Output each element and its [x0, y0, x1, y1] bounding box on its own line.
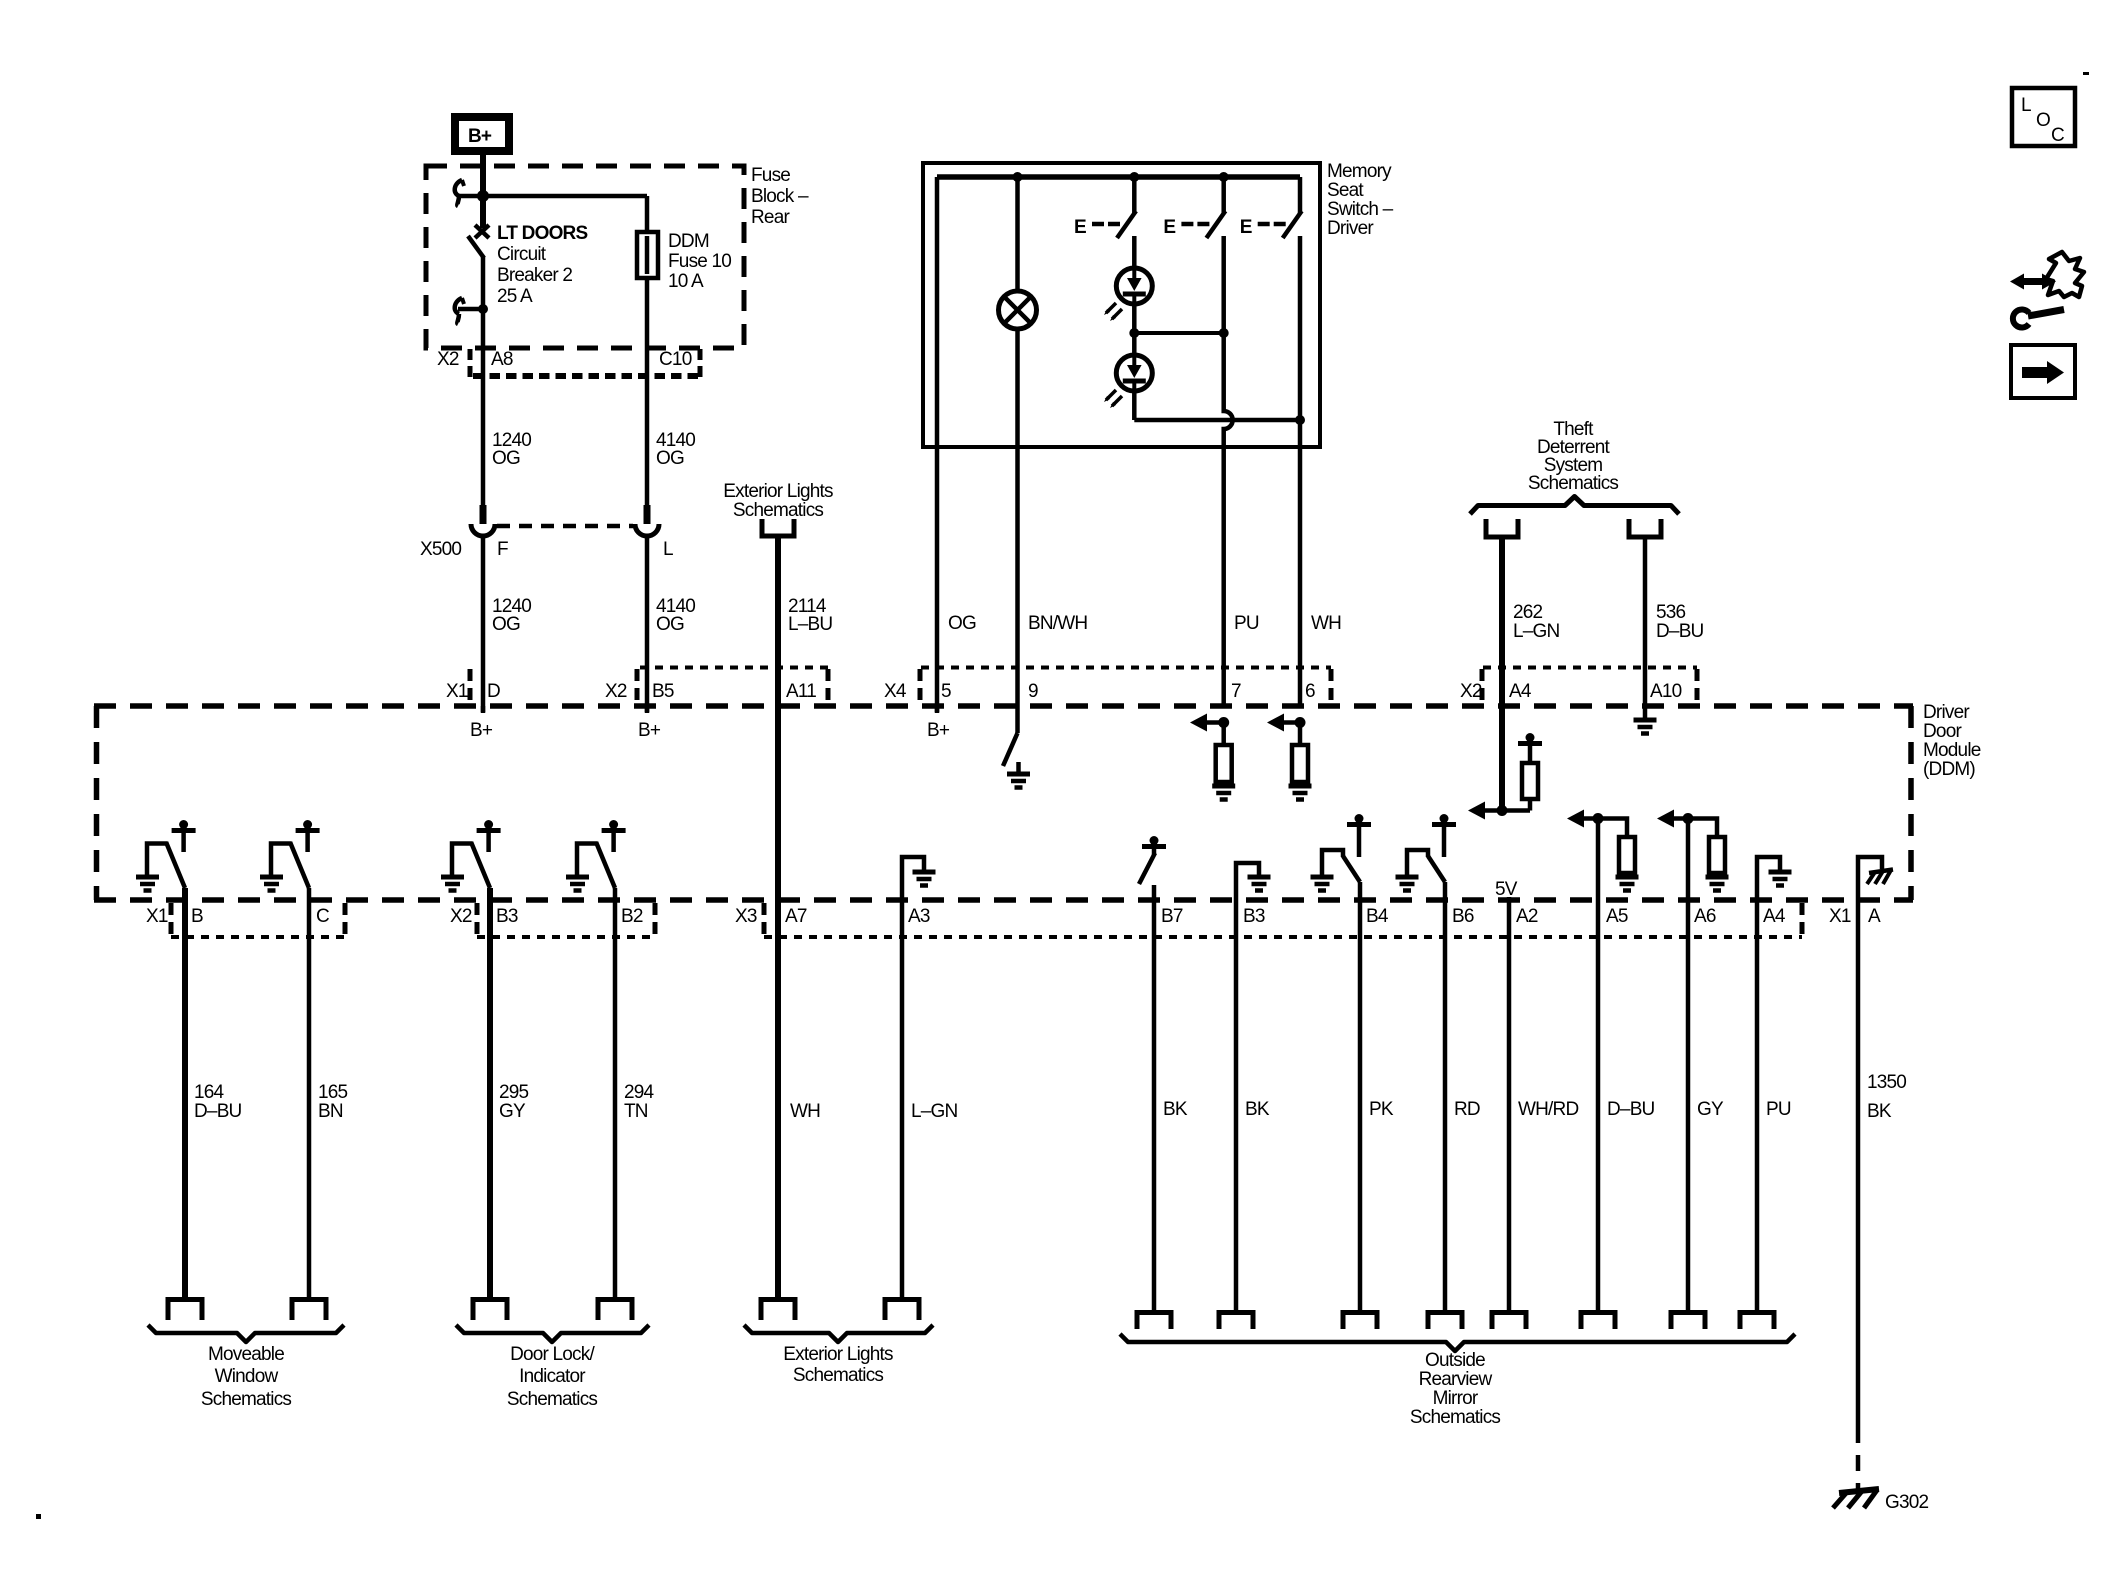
node bus to switch S1 [1129, 172, 1139, 182]
svg-text:BN/WH: BN/WH [1028, 613, 1087, 634]
svg-text:GY: GY [499, 1101, 526, 1122]
wire pin A elbow to chassis ground [1858, 857, 1882, 900]
svg-text:294: 294 [624, 1082, 655, 1103]
svg-text:OG: OG [656, 448, 684, 469]
wire 536 D-BU [1643, 538, 1648, 706]
svg-text:PU: PU [1766, 1099, 1791, 1120]
svg-text:Mirror: Mirror [1433, 1388, 1479, 1409]
terminal pin B6 off-page [1428, 1313, 1462, 1330]
svg-text:Module: Module [1923, 740, 1981, 761]
svg-text:A5: A5 [1606, 906, 1628, 927]
Moveable Window Schematics label [201, 1344, 292, 1410]
forward arrow box icon [2011, 345, 2075, 398]
svg-text:BK: BK [1867, 1101, 1892, 1122]
svg-text:LT DOORS: LT DOORS [497, 223, 587, 244]
svg-text:Exterior Lights: Exterior Lights [783, 1344, 893, 1365]
B+ power symbol box [455, 117, 509, 151]
ground under resistor R4 [1616, 877, 1639, 891]
svg-text:5V: 5V [1495, 879, 1518, 900]
node pin 7 junction [1218, 717, 1229, 728]
resistor R1 on pin 7 [1216, 723, 1232, 787]
wire 536 inside DDM pin A10 [1643, 706, 1648, 720]
lamp E1 illumination bulb [999, 291, 1037, 329]
svg-text:165: 165 [318, 1082, 348, 1103]
svg-text:Rear: Rear [751, 207, 790, 228]
wire 294 TN pin B2 to door lock [613, 900, 618, 1297]
svg-text:6: 6 [1305, 681, 1315, 702]
svg-text:TN: TN [624, 1101, 648, 1122]
svg-text:A7: A7 [785, 906, 807, 927]
wire 1350 BK label [1867, 1072, 1906, 1122]
svg-text:A2: A2 [1516, 906, 1538, 927]
Theft Deterrent System Schematics heading [1528, 419, 1619, 494]
svg-text:Exterior Lights: Exterior Lights [723, 481, 833, 502]
page mark small dash top right [2083, 72, 2089, 75]
diagnosis icon outline arrow [2046, 252, 2084, 297]
svg-text:WH/RD: WH/RD [1518, 1099, 1578, 1120]
svg-text:PK: PK [1369, 1099, 1394, 1120]
svg-text:X1: X1 [146, 906, 168, 927]
brace door lock group [456, 1325, 649, 1342]
ground at switch pin C [260, 877, 283, 891]
wire 2114 L-BU label [788, 596, 832, 635]
svg-text:B2: B2 [621, 906, 643, 927]
svg-text:C10: C10 [659, 349, 692, 370]
svg-text:B+: B+ [927, 720, 950, 741]
DDM top connector row separators [470, 669, 1697, 703]
wire breaker upper stub [480, 196, 486, 228]
wire 1240 OG upper label [492, 430, 531, 469]
ground at switch pin B [136, 877, 159, 891]
svg-text:RD: RD [1454, 1099, 1480, 1120]
svg-text:B6: B6 [1452, 906, 1474, 927]
resistor R5 on pin A6 [1688, 819, 1725, 878]
wire 536 D-BU label [1656, 602, 1704, 642]
svg-text:E: E [1074, 217, 1086, 238]
wire pin A3 elbow [902, 857, 924, 900]
wire GY pin A6 to mirror [1686, 900, 1691, 1310]
wire 165 BN label [318, 1082, 348, 1122]
node bus to lamp branch [1013, 172, 1023, 182]
wire BK pin B3 to mirror [1234, 900, 1239, 1310]
terminal pin A6 off-page [1671, 1313, 1705, 1330]
svg-text:A4: A4 [1763, 906, 1786, 927]
svg-text:B3: B3 [1243, 906, 1265, 927]
wire 262 inside DDM pin A4 [1499, 706, 1505, 811]
ground at switch pin B4 [1311, 877, 1334, 891]
svg-text:Window: Window [215, 1366, 279, 1387]
LED D1 indicator [1104, 268, 1152, 321]
svg-text:Fuse 10: Fuse 10 [668, 251, 731, 272]
svg-text:C: C [2051, 125, 2064, 146]
svg-text:Schematics: Schematics [507, 1389, 598, 1410]
ground at pin A3 [913, 872, 936, 886]
Fuse Block - Rear dashed box [426, 166, 744, 348]
signal arrow at pin 7 [1190, 714, 1224, 732]
wire 4140 OG lower label [656, 596, 695, 635]
brace outside rearview mirror group [1120, 1334, 1795, 1351]
node pin A5 junction [1593, 813, 1604, 824]
circuit breaker CB2 LT DOORS top contact hook [455, 180, 464, 206]
terminal pin B off-page [168, 1300, 202, 1321]
wire WH/RD pin A2 to mirror [1507, 900, 1512, 1310]
wire 295 GY label [499, 1082, 529, 1122]
svg-text:D–BU: D–BU [1607, 1099, 1655, 1120]
LOC reference box icon [2012, 88, 2075, 146]
node LED junction left [1129, 328, 1139, 338]
resistor R2 on pin 6 [1292, 723, 1308, 787]
switch window down driver on pin C [271, 820, 320, 900]
svg-text:X2: X2 [450, 906, 472, 927]
svg-text:9: 9 [1028, 681, 1038, 702]
signal arrow at pin 6 [1267, 714, 1300, 732]
wire 4140 OG upper label [656, 430, 695, 469]
DDM top connector row dotted lines [640, 666, 1697, 670]
svg-text:OG: OG [492, 614, 520, 635]
ground at switch pin B6 [1396, 877, 1419, 891]
diagnosis icon wrench [2013, 310, 2064, 328]
svg-text:F: F [497, 539, 508, 560]
svg-text:A11: A11 [786, 681, 816, 702]
svg-text:Moveable: Moveable [208, 1344, 284, 1365]
wire L-GN pin A3 to exterior lights [900, 900, 905, 1297]
Fuse Block - Rear label [751, 165, 809, 228]
wire LED return with hop over S2 wire [1134, 418, 1300, 423]
switch window up driver on pin B [147, 820, 196, 900]
wire LED junction cross link [1134, 331, 1223, 335]
svg-text:X1: X1 [446, 681, 468, 702]
wire junction to LED2 [1132, 333, 1137, 356]
terminal pin A5 off-page [1581, 1313, 1615, 1330]
svg-text:X2: X2 [1460, 681, 1482, 702]
svg-text:E: E [1163, 217, 1175, 238]
svg-text:B4: B4 [1366, 906, 1389, 927]
Exterior Lights Schematics label bottom [783, 1344, 893, 1386]
svg-text:X3: X3 [735, 906, 757, 927]
wire fuse output to X2 connector [645, 278, 650, 505]
node LED junction right on S2 wire [1219, 328, 1229, 338]
off-page connector theft deterrent left [1486, 519, 1518, 537]
svg-text:BK: BK [1245, 1099, 1270, 1120]
svg-text:A8: A8 [491, 349, 513, 370]
switch door lock on pin B3 [452, 820, 501, 900]
wire 1240 OG lower label [492, 596, 531, 635]
svg-text:A3: A3 [908, 906, 930, 927]
wire D-BU pin A5 to mirror [1596, 900, 1601, 1310]
wire LED2 bottom to return line [1132, 391, 1137, 420]
connector X500 labels [420, 539, 673, 560]
svg-text:O: O [2036, 110, 2050, 131]
svg-text:L–GN: L–GN [1513, 621, 1560, 642]
wire 5V reference pin A2 [1507, 897, 1512, 900]
switch S3 memory 2 [1240, 177, 1302, 238]
terminal pin B4 off-page [1343, 1313, 1377, 1330]
svg-text:WH: WH [790, 1101, 820, 1122]
signal arrow at pin A5 [1567, 810, 1598, 828]
wire branch to DDM fuse [458, 194, 647, 199]
svg-text:Rearview: Rearview [1419, 1369, 1493, 1390]
wire LED1 to junction [1132, 304, 1137, 333]
wire lamp branch upper [1015, 177, 1020, 292]
wire S2 to pin 7 with hop over LED return [1224, 236, 1233, 708]
svg-text:Schematics: Schematics [793, 1365, 884, 1386]
connector X500 terminal F male pin [471, 505, 495, 536]
node bus to switch S2 [1219, 172, 1229, 182]
svg-text:BN: BN [318, 1101, 343, 1122]
DDM Fuse 10 10 A label [668, 231, 731, 292]
switch mirror motor on pin B6 [1407, 814, 1456, 900]
wire 2114 through DDM pin A11 to pin A7 [775, 538, 781, 900]
circuit breaker CB2 bottom contact hook [455, 298, 488, 324]
svg-text:OG: OG [656, 614, 684, 635]
svg-text:L: L [2021, 95, 2031, 116]
signal arrow at pin A4 [1468, 802, 1502, 820]
svg-text:B7: B7 [1161, 906, 1183, 927]
DDM bottom connector row dotted lines [171, 935, 1802, 939]
wire S3 to pin 6 [1298, 236, 1303, 708]
svg-text:X2: X2 [605, 681, 627, 702]
wire 164 D-BU pin B to moveable window [182, 900, 188, 1297]
DDM bottom connector row separators [171, 903, 1802, 936]
svg-text:BK: BK [1163, 1099, 1188, 1120]
switch door ajar on pin 9 [1003, 706, 1018, 766]
brace exterior lights group [744, 1325, 933, 1342]
ground at pin B3 right [1248, 877, 1271, 891]
ground under pin 9 switch [1007, 762, 1030, 788]
svg-text:A: A [1868, 906, 1881, 927]
diagnosis icon double arrow [2010, 274, 2056, 290]
node pin A4 junction [1497, 805, 1508, 816]
terminal pin B7 off-page [1137, 1313, 1171, 1330]
svg-text:L–GN: L–GN [911, 1101, 958, 1122]
wire PK pin B4 to mirror [1358, 900, 1363, 1310]
resistor R4 on pin A5 [1598, 819, 1635, 878]
svg-text:164: 164 [194, 1082, 225, 1103]
svg-text:295: 295 [499, 1082, 529, 1103]
svg-text:G302: G302 [1885, 1492, 1929, 1513]
wire PU pin A4 to mirror [1755, 900, 1760, 1310]
circuit breaker CB2 thermal X mark [475, 225, 489, 238]
ground under resistor R5 [1706, 877, 1729, 891]
node pin 6 junction [1295, 717, 1306, 728]
ground at switch pin B2 [566, 877, 589, 891]
chassis ground inside DDM [1867, 870, 1893, 885]
svg-text:B+: B+ [470, 720, 493, 741]
terminal pin B3 off-page mirror [1219, 1313, 1253, 1330]
DDM top pin labels [446, 681, 1682, 702]
Driver Door Module (DDM) label [1923, 702, 1981, 780]
svg-text:5: 5 [941, 681, 951, 702]
svg-text:25 A: 25 A [497, 286, 533, 307]
wire pin A5 inside DDM [1596, 819, 1601, 901]
wire pin B3 right elbow [1236, 863, 1259, 900]
ground under resistor R1 [1212, 786, 1235, 800]
wire pin A4 lower elbow [1757, 857, 1780, 900]
svg-text:Schematics: Schematics [733, 500, 824, 521]
svg-text:A4: A4 [1509, 681, 1532, 702]
resistor R3 pull-up on pin A4 [1502, 733, 1542, 811]
switch mirror motor on pin B4 [1322, 814, 1371, 900]
Door Lock/Indicator Schematics label [507, 1344, 598, 1410]
svg-text:PU: PU [1234, 613, 1259, 634]
svg-text:OG: OG [948, 613, 976, 634]
wire breaker output to X2 connector [481, 309, 486, 505]
off-page connector to Exterior Lights [762, 519, 794, 536]
Exterior Lights Schematics heading top [723, 481, 833, 521]
DDM bottom pin labels [146, 906, 1881, 927]
svg-text:Schematics: Schematics [1528, 473, 1619, 494]
wire BK pin B7 to mirror [1152, 900, 1157, 1310]
svg-text:Outside: Outside [1425, 1350, 1485, 1371]
svg-text:Fuse: Fuse [751, 165, 790, 186]
terminal pin A2 off-page [1492, 1313, 1526, 1330]
Outside Rearview Mirror Schematics label [1410, 1350, 1501, 1428]
svg-text:Door Lock/: Door Lock/ [510, 1344, 595, 1365]
switch door unlock on pin B2 [577, 820, 626, 900]
svg-text:Driver: Driver [1923, 702, 1970, 723]
Memory Seat Switch - Driver box [923, 163, 1320, 447]
svg-text:GY: GY [1697, 1099, 1724, 1120]
svg-text:B3: B3 [496, 906, 518, 927]
ground under resistor R2 [1289, 786, 1312, 800]
svg-text:X4: X4 [884, 681, 907, 702]
svg-text:536: 536 [1656, 602, 1686, 623]
wire WH pin A7 to exterior lights [775, 900, 781, 1297]
wire bus left drop to pin 5 [935, 177, 940, 712]
svg-text:Breaker 2: Breaker 2 [497, 265, 572, 286]
terminal pin A4 off-page [1740, 1313, 1774, 1330]
terminal pin A3 off-page [885, 1300, 919, 1321]
svg-text:B+: B+ [468, 126, 492, 147]
svg-text:C: C [316, 906, 329, 927]
wire 294 TN label [624, 1082, 655, 1122]
wire 262 L-GN label [1513, 602, 1560, 642]
wire 295 GY pin B3 to door lock [487, 900, 493, 1297]
LED D2 indicator [1104, 355, 1152, 408]
svg-text:B: B [191, 906, 203, 927]
svg-text:Block –: Block – [751, 186, 809, 207]
svg-text:Door: Door [1923, 721, 1962, 742]
wire from B+ to circuit breaker [480, 155, 486, 196]
svg-text:E: E [1240, 217, 1252, 238]
connector X500 terminal L male pin [635, 505, 659, 536]
svg-text:B+: B+ [638, 720, 661, 741]
off-page connector theft deterrent right [1629, 519, 1661, 537]
ground at switch pin B3 [441, 877, 464, 891]
LT DOORS Circuit Breaker 2 25 A label [497, 223, 587, 307]
Driver Door Module DDM dashed box [94, 706, 1913, 900]
svg-text:262: 262 [1513, 602, 1543, 623]
svg-text:D–BU: D–BU [194, 1101, 242, 1122]
terminal pin B3 off-page [473, 1300, 507, 1321]
svg-text:WH: WH [1311, 613, 1341, 634]
svg-text:Memory: Memory [1327, 161, 1392, 182]
wire 164 D-BU label [194, 1082, 242, 1122]
svg-text:Driver: Driver [1327, 218, 1374, 239]
wire S1 to LED1 [1132, 236, 1137, 269]
wire 2114 L-BU heavy feed [775, 538, 781, 706]
wire breaker lower segment [481, 256, 486, 309]
wire pin B5 stub inside DDM [645, 706, 650, 713]
wire pin 5 stub inside DDM [935, 706, 940, 713]
svg-text:L–BU: L–BU [788, 614, 832, 635]
wire 1350 BK dashed segment [1856, 1427, 1861, 1490]
wire RD pin B6 to mirror [1443, 900, 1448, 1310]
svg-text:A6: A6 [1694, 906, 1716, 927]
svg-text:D: D [487, 681, 500, 702]
svg-text:X2: X2 [437, 349, 459, 370]
wire 4140 OG to DDM pin B5 [645, 538, 650, 712]
svg-text:D–BU: D–BU [1656, 621, 1704, 642]
node pin A6 junction [1683, 813, 1694, 824]
signal arrow at pin A6 [1657, 810, 1688, 828]
svg-text:X500: X500 [420, 539, 461, 560]
svg-text:Schematics: Schematics [201, 1389, 292, 1410]
svg-text:Circuit: Circuit [497, 244, 547, 265]
svg-text:Schematics: Schematics [1410, 1407, 1501, 1428]
wire 1240 OG to DDM pin D [481, 538, 486, 712]
svg-text:Switch –: Switch – [1327, 199, 1394, 220]
svg-text:A10: A10 [1650, 681, 1682, 702]
Memory Seat Switch - Driver label [1327, 161, 1394, 239]
wire 165 BN pin C to moveable window [307, 900, 312, 1297]
terminal pin A7 off-page [761, 1300, 795, 1321]
wire internal supply bus of memory switch [937, 174, 1300, 180]
fuse F10 DDM Fuse 10 [637, 196, 658, 278]
svg-text:7: 7 [1231, 681, 1241, 702]
wire pin D stub inside DDM [481, 706, 486, 713]
wire 262 L-GN heavy [1499, 538, 1505, 706]
svg-text:OG: OG [492, 448, 520, 469]
wire pin A6 inside DDM [1686, 819, 1691, 901]
svg-text:DDM: DDM [668, 231, 709, 252]
wire 1350 BK pin A to G302 [1856, 900, 1861, 1427]
node LED return to S3 wire [1295, 415, 1305, 425]
svg-text:B5: B5 [652, 681, 674, 702]
node: breaker top junction to fuse branch [477, 190, 489, 202]
switch S1 memory set [1074, 177, 1136, 238]
ground at pin A10 [1634, 720, 1657, 734]
switch S2 memory 1 [1163, 177, 1225, 238]
connector X500 dashed link [497, 524, 633, 529]
circuit breaker CB2 blade [468, 236, 484, 258]
ground G302 chassis symbol [1833, 1489, 1879, 1508]
ground at pin A4 lower [1769, 872, 1792, 886]
svg-text:Indicator: Indicator [519, 1366, 586, 1387]
terminal pin B2 off-page [598, 1300, 632, 1321]
svg-text:1350: 1350 [1867, 1072, 1906, 1093]
terminal pin C off-page [292, 1300, 326, 1321]
switch mirror select on pin B7 [1139, 836, 1166, 900]
svg-text:L: L [663, 539, 673, 560]
connector X2 label row of Fuse Block [437, 349, 701, 378]
brace over theft deterrent connectors [1470, 497, 1679, 515]
wire lamp to pin 9 [1015, 328, 1020, 706]
brace moveable window group [148, 1325, 344, 1342]
svg-text:Seat: Seat [1327, 180, 1364, 201]
svg-text:(DDM): (DDM) [1923, 759, 1975, 780]
page mark small dot bottom left [36, 1514, 41, 1519]
svg-text:10 A: 10 A [668, 271, 704, 292]
svg-text:X1: X1 [1829, 906, 1851, 927]
